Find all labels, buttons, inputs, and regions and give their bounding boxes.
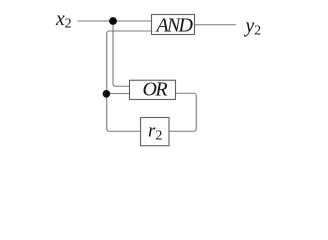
- svg-text:AND: AND: [155, 15, 194, 37]
- svg-text:OR: OR: [143, 79, 168, 101]
